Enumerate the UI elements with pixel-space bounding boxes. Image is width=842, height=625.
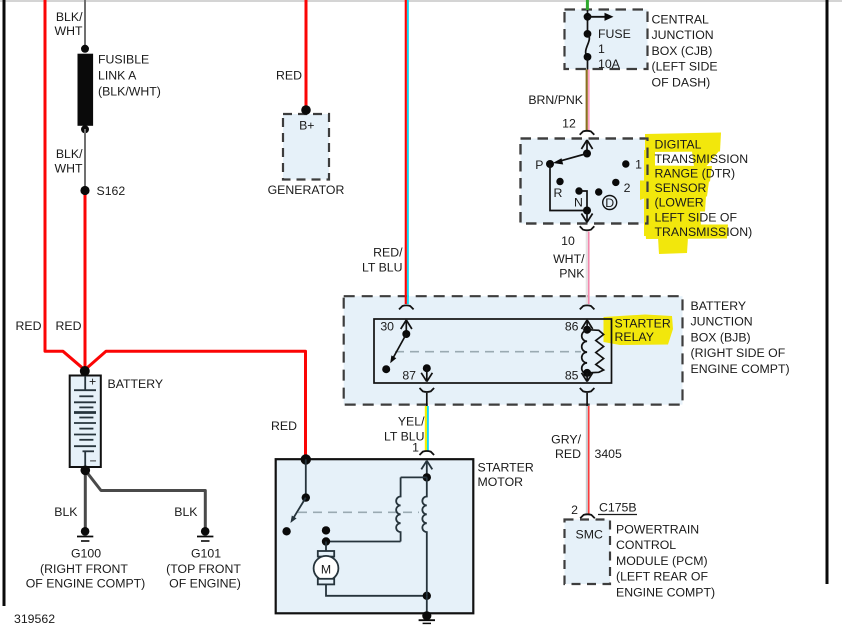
svg-text:MOTOR: MOTOR: [478, 475, 524, 489]
svg-text:JUNCTION: JUNCTION: [691, 315, 753, 329]
svg-text:RED: RED: [16, 319, 42, 333]
connector arc at relay pin 86: [580, 305, 595, 309]
junction dot red wire on starter box edge: [301, 454, 311, 464]
svg-text:G101: G101: [191, 547, 221, 561]
switch open contact dot: [282, 527, 290, 535]
svg-text:RED: RED: [276, 69, 302, 83]
wire RED right branch from battery junction to starter motor: [86, 351, 306, 458]
svg-text:JUNCTION: JUNCTION: [652, 28, 714, 42]
svg-text:WHT/: WHT/: [553, 252, 585, 266]
svg-text:1: 1: [635, 158, 642, 172]
svg-text:OF ENGINE COMPT): OF ENGINE COMPT): [26, 577, 146, 591]
svg-text:BRN/PNK: BRN/PNK: [528, 93, 583, 107]
connector arc at starter motor pin 1: [420, 451, 435, 455]
svg-text:−: −: [90, 454, 97, 468]
wire motor to ground bus: [326, 584, 427, 595]
battery internal: negative stub: [84, 451, 86, 466]
wire YEL/LT BLU from BJB pin 87 to starter motor: [426, 406, 428, 451]
relay coil top dot: [583, 326, 591, 334]
solenoid fixed contact dot: [322, 526, 330, 534]
dashed mechanical link in starter: [298, 511, 419, 513]
wire BLK from battery to G100: [84, 470, 87, 527]
relay switch arm: [393, 334, 407, 359]
svg-text:R: R: [554, 186, 563, 200]
svg-text:(LEFT REAR OF: (LEFT REAR OF: [616, 570, 708, 584]
svg-text:(BLK/WHT): (BLK/WHT): [98, 85, 161, 99]
svg-text:SENSOR: SENSOR: [655, 181, 707, 195]
battery plates: [74, 390, 96, 451]
svg-text:(LOWER: (LOWER: [655, 196, 704, 210]
wire stub pin 87 to BJB edge: [426, 393, 428, 406]
starter relay inner box: [374, 319, 612, 383]
fuse 1 10A element: [584, 30, 592, 38]
relay pin 30 entry arrow: [401, 320, 412, 334]
svg-text:BLK: BLK: [54, 505, 78, 519]
svg-text:DIGITAL: DIGITAL: [655, 137, 702, 151]
junction dot above fusible link: [81, 45, 89, 53]
splice node S162: [80, 186, 89, 195]
svg-text:RED: RED: [555, 447, 581, 461]
BJB outer box (battery junction box): [344, 296, 683, 404]
DTR exit arrow down: [581, 211, 592, 223]
svg-text:LINK A: LINK A: [98, 69, 137, 83]
entry arrow at starter pin 1: [421, 461, 432, 477]
wire BLK/WHT from top to fusible link: [84, 0, 86, 50]
fusible link A body: [78, 54, 94, 126]
svg-text:TRANSMISSION): TRANSMISSION): [655, 225, 753, 239]
relay pin 87 contact dot: [423, 364, 431, 372]
svg-text:GENERATOR: GENERATOR: [268, 183, 345, 197]
svg-text:CENTRAL: CENTRAL: [652, 13, 710, 27]
svg-text:RED/: RED/: [373, 246, 403, 260]
connector arc below DTR pin 10: [580, 226, 595, 230]
svg-text:10: 10: [561, 234, 575, 248]
highlighter blob over STARTER RELAY text: [604, 315, 674, 346]
starter pull-in coil (left): [396, 477, 400, 541]
top border line: [0, 0, 842, 2]
svg-text:86: 86: [565, 320, 579, 334]
svg-text:SMC: SMC: [576, 528, 603, 542]
svg-text:STARTER: STARTER: [478, 461, 534, 475]
svg-text:CONTROL: CONTROL: [616, 538, 676, 552]
connector arc at DTR pin 12: [580, 131, 595, 135]
svg-text:BLK: BLK: [174, 505, 198, 519]
svg-text:(TOP FRONT: (TOP FRONT: [166, 562, 241, 576]
contact dot R: [556, 178, 563, 185]
svg-text:GRY/: GRY/: [551, 433, 581, 447]
svg-text:12: 12: [562, 117, 576, 131]
junction dot at battery negative terminal: [81, 466, 91, 476]
relay pin 87 exit arrow: [421, 368, 432, 381]
svg-text:30: 30: [380, 320, 394, 334]
wire from left coil bottom to contact: [326, 541, 401, 543]
svg-text:B+: B+: [299, 119, 314, 133]
svg-text:+: +: [89, 375, 96, 389]
svg-text:N: N: [574, 196, 583, 210]
svg-text:LEFT SIDE OF: LEFT SIDE OF: [655, 210, 738, 224]
svg-text:G100: G100: [71, 547, 101, 561]
svg-text:TRANSMISSION: TRANSMISSION: [655, 152, 749, 166]
svg-text:OF DASH): OF DASH): [652, 75, 711, 89]
svg-text:BOX (BJB): BOX (BJB): [691, 330, 751, 344]
svg-text:RANGE (DTR): RANGE (DTR): [655, 167, 736, 181]
wire contact to motor: [325, 542, 327, 552]
DTR selector arm pointing to P: [559, 154, 587, 162]
junction dot at generator B+: [301, 105, 311, 115]
switch pivot dot: [302, 493, 310, 501]
svg-text:319562: 319562: [14, 612, 55, 625]
svg-text:(LEFT SIDE: (LEFT SIDE: [652, 60, 718, 74]
DTR wire P to output: [550, 164, 587, 211]
wire RED left branch from top, corner to battery junction: [45, 0, 84, 369]
wire stub pin 85 to BJB edge: [586, 393, 588, 406]
svg-text:S162: S162: [97, 184, 126, 198]
svg-text:STARTER: STARTER: [615, 317, 671, 331]
contact dot P: [546, 160, 554, 168]
junction dot below fusible link: [81, 125, 89, 133]
starter case ground symbol: [419, 611, 435, 623]
svg-text:BLK/: BLK/: [56, 147, 83, 161]
svg-text:10A: 10A: [598, 57, 621, 71]
connector arc at PCM pin 2: [580, 514, 595, 518]
highlighter blob over DTR sensor text: [640, 133, 728, 255]
contact dot 2: [612, 179, 619, 186]
svg-text:85: 85: [565, 369, 579, 383]
wire RED from S162 down to battery junction: [84, 195, 87, 370]
connector arc below relay pin 85: [580, 388, 595, 392]
solenoid moving contact dot: [322, 537, 330, 545]
motor M symbol: [314, 551, 339, 584]
contact dot N: [575, 187, 582, 194]
starter motor box: [276, 459, 474, 613]
wire GRY/RED from relay pin 85 to PCM: [587, 406, 589, 514]
svg-text:RED: RED: [271, 419, 297, 433]
PCM SMC box: [565, 520, 611, 585]
svg-text:WHT: WHT: [55, 24, 83, 38]
DTR pivot dot: [583, 150, 591, 158]
relay contact dot 87 side: [382, 365, 390, 373]
svg-text:YEL/: YEL/: [398, 415, 425, 429]
junction dot at battery positive terminal: [80, 366, 90, 376]
junction dot top of fuse feed: [584, 13, 592, 21]
svg-text:C175B: C175B: [599, 501, 637, 515]
svg-text:BATTERY: BATTERY: [108, 377, 164, 391]
wire BRN/PNK from CJB to DTR: [587, 70, 589, 131]
unlabeled contact dot: [595, 188, 602, 195]
arrow feed to other circuits: [588, 16, 607, 18]
svg-text:87: 87: [402, 369, 416, 383]
svg-text:RED: RED: [56, 319, 82, 333]
svg-text:ENGINE COMPT): ENGINE COMPT): [616, 585, 715, 599]
wire to case ground: [426, 596, 428, 615]
contact dot 1: [622, 160, 629, 167]
DTR sensor box border restroke: [521, 139, 648, 224]
svg-text:LT BLU: LT BLU: [362, 261, 403, 275]
svg-text:3405: 3405: [595, 447, 623, 461]
wire GRN at top into CJB: [586, 0, 589, 10]
battery internal: positive stub: [84, 376, 86, 390]
ground G100 symbol: [77, 527, 93, 541]
svg-text:2: 2: [624, 181, 631, 195]
connector arc below relay pin 87: [420, 388, 435, 392]
svg-text:ENGINE COMPT): ENGINE COMPT): [691, 362, 790, 376]
CJB internal wire below fuse: [587, 57, 589, 70]
svg-text:BLK/: BLK/: [56, 10, 83, 24]
generator box: [283, 114, 329, 180]
relay coil winding: [582, 331, 587, 374]
svg-text:WHT: WHT: [55, 162, 83, 176]
svg-text:RELAY: RELAY: [615, 330, 654, 344]
switch arm with arrowhead: [293, 498, 306, 519]
relay pin 86 entry arrow: [582, 320, 593, 330]
svg-text:FUSIBLE: FUSIBLE: [98, 53, 149, 67]
svg-text:1: 1: [412, 441, 419, 455]
junction dot pull-in coil top: [423, 473, 431, 481]
starter hold-in coil (right): [422, 477, 426, 595]
DTR entry arrow: [581, 140, 592, 154]
CJB internal wire to fuse: [587, 10, 589, 34]
svg-text:P: P: [535, 158, 543, 172]
wire RED/LT BLU from top to relay pin 30: [406, 0, 408, 304]
DTR sensor box: [521, 139, 648, 224]
relay coil bottom dot: [583, 369, 591, 377]
wire to left coil top: [401, 476, 427, 478]
battery box: [70, 376, 101, 468]
dashed mechanical link in relay: [395, 351, 581, 353]
DTR wire N to output: [579, 191, 587, 211]
wire BLK branch from battery to G101: [85, 470, 205, 527]
DTR output junction dot: [583, 207, 591, 215]
relay pin 85 exit arrow: [582, 373, 593, 382]
svg-text:(RIGHT FRONT: (RIGHT FRONT: [40, 562, 128, 576]
svg-text:FUSE: FUSE: [598, 27, 631, 41]
svg-text:PNK: PNK: [559, 267, 585, 281]
left border bar: [3, 0, 6, 606]
wire WHT/PNK from DTR to relay pin 86: [587, 232, 589, 305]
svg-text:BOX (CJB): BOX (CJB): [652, 44, 713, 58]
svg-text:M: M: [321, 563, 331, 577]
junction dot ground bus: [423, 592, 431, 600]
svg-text:2: 2: [571, 503, 578, 517]
connector arc at relay pin 30: [399, 305, 414, 309]
svg-text:MODULE (PCM): MODULE (PCM): [616, 554, 708, 568]
wire RED from top to generator: [305, 0, 308, 109]
right border bar: [826, 0, 829, 584]
svg-text:1: 1: [598, 42, 605, 56]
CJB box (central junction box): [565, 10, 648, 70]
relay coil resistor zigzag: [587, 330, 604, 373]
starter solenoid switch wire: [305, 459, 307, 497]
svg-text:(RIGHT SIDE OF: (RIGHT SIDE OF: [691, 346, 786, 360]
svg-text:OF ENGINE): OF ENGINE): [169, 577, 241, 591]
wire BLK/WHT from fusible link to S162: [84, 129, 86, 190]
svg-text:POWERTRAIN: POWERTRAIN: [616, 523, 699, 537]
position D circle: [603, 196, 617, 210]
svg-text:D: D: [605, 196, 614, 210]
ground G101 symbol: [197, 527, 213, 541]
relay switch pivot dot: [402, 330, 410, 338]
svg-text:BATTERY: BATTERY: [691, 299, 747, 313]
